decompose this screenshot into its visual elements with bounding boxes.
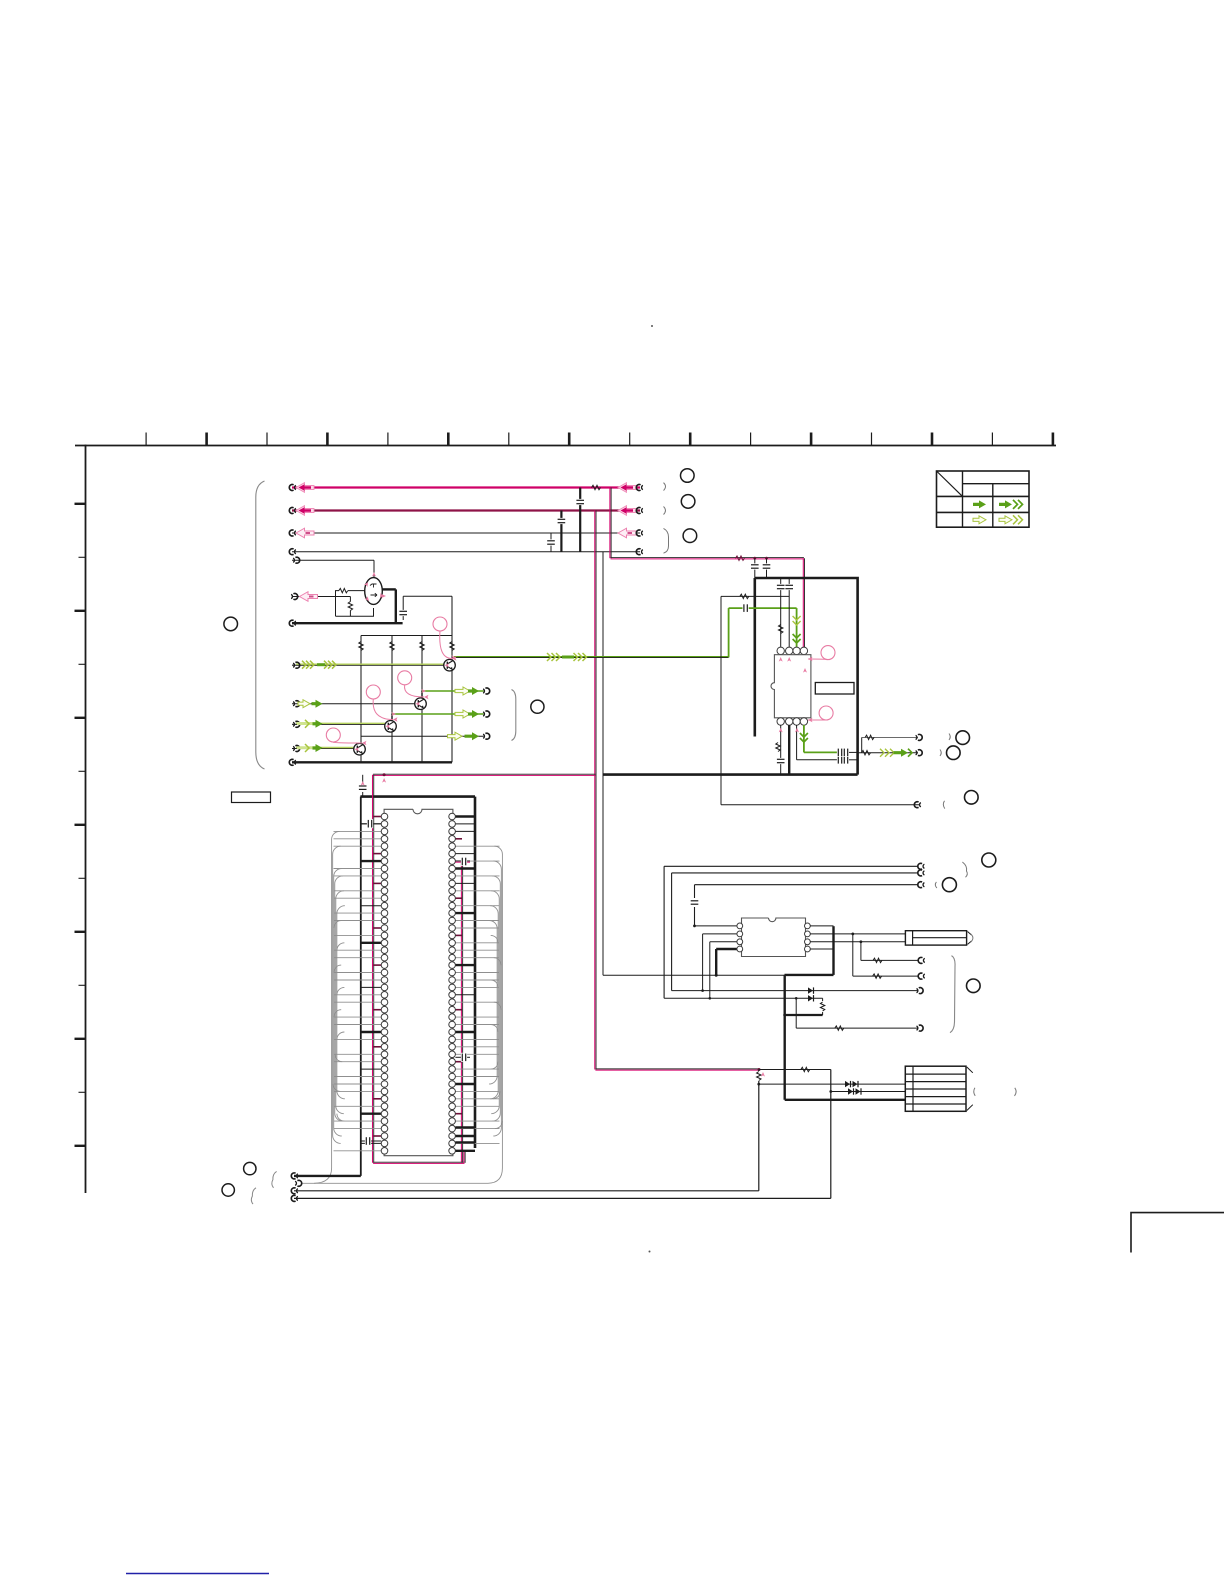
right bracket row1 xyxy=(664,483,666,491)
IC U2 bottom pins xyxy=(777,718,808,725)
resistor on row1 xyxy=(592,485,601,489)
bottom connector row1 thick xyxy=(294,1175,361,1177)
IC U3 pin1 wire xyxy=(695,925,738,927)
thick sense wire xyxy=(832,926,834,975)
resistor R in box xyxy=(349,597,351,602)
U2 label rect xyxy=(815,683,854,695)
ref circle right B xyxy=(681,495,695,509)
transistor Q5 oval xyxy=(365,578,383,605)
IC U2 body xyxy=(771,655,811,718)
motor feed row a xyxy=(759,1083,906,1085)
blue footer line xyxy=(126,1573,269,1575)
motor branch vertical b xyxy=(830,1070,832,1199)
U3 pin5 wire xyxy=(810,948,834,950)
IC U1 right pins xyxy=(449,813,456,1154)
IC U3 body xyxy=(742,918,806,957)
motor branch vertical a xyxy=(758,1070,760,1072)
motor bracket right xyxy=(1015,1088,1017,1096)
thick link xyxy=(785,1014,823,1016)
connector plug CN xyxy=(905,931,966,945)
diode row 1 xyxy=(672,990,919,992)
row4 right connector xyxy=(636,549,640,555)
U2 pin1 lower wire xyxy=(780,725,782,775)
capacitor stub C1 xyxy=(550,533,552,552)
motor M1 xyxy=(905,1066,966,1111)
IC U1 outer box top xyxy=(360,795,475,798)
row3 left connector xyxy=(289,530,293,536)
IC U1 body xyxy=(384,809,453,1155)
diode row 2 xyxy=(664,997,823,999)
IC U1 outer box left xyxy=(360,797,362,1176)
top ruler line xyxy=(75,445,1056,447)
maroon bus left xyxy=(371,775,373,1163)
green output row B xyxy=(421,691,423,698)
capacitor pair row2 xyxy=(837,759,849,761)
left ruler ticks xyxy=(75,504,86,1146)
outer loop wire xyxy=(720,596,722,804)
balloon label Q3 xyxy=(366,685,380,699)
balloon label Q4 xyxy=(326,728,340,742)
row1 left arrow xyxy=(296,483,314,493)
motor feed row b xyxy=(831,1091,906,1093)
main drive trunk thick xyxy=(784,975,786,1100)
capacitor stub U1 right lower xyxy=(455,1056,470,1058)
IC U3 pin2 wire xyxy=(703,933,738,935)
branch wire c xyxy=(795,998,797,1028)
legend arrow outline small xyxy=(973,516,986,524)
U1 right harness loops xyxy=(301,846,502,1183)
green input row D xyxy=(292,748,355,750)
wire row1 magenta xyxy=(292,486,640,488)
row1 right arrow xyxy=(618,483,636,493)
ref circle branch xyxy=(967,979,981,993)
row3 right connector xyxy=(636,530,640,536)
green output beyond box xyxy=(858,752,918,754)
capacitor stub C4 xyxy=(402,596,404,620)
legend table frame xyxy=(937,471,1030,527)
transistor Q2 xyxy=(415,698,427,710)
U2 pin3 lower wire xyxy=(796,725,798,760)
IC U2 box bottom thick xyxy=(603,773,858,776)
green feed wire xyxy=(728,608,730,657)
bracket loop xyxy=(943,801,944,809)
green input row C xyxy=(292,723,386,725)
wire row5 xyxy=(292,559,374,561)
loop1 connector xyxy=(918,863,922,869)
pink tick marks xyxy=(372,572,376,577)
bottom connector row2 xyxy=(297,1180,301,1186)
row2 left arrow xyxy=(296,506,314,516)
label rect xyxy=(232,792,271,803)
diode row1 connector xyxy=(919,988,923,994)
legend arrow solid large xyxy=(999,500,1012,508)
maroon net from row1 xyxy=(609,488,611,559)
green output row A xyxy=(454,656,729,658)
maroon-black motor feed xyxy=(759,1069,831,1071)
row1 left connector xyxy=(289,484,293,490)
row6 wire xyxy=(292,596,350,598)
U1 left harness loops xyxy=(314,831,345,1183)
row3 right arrow outline xyxy=(618,528,636,538)
row6 arrow outline pink xyxy=(300,592,318,602)
black cap stub to IC box xyxy=(362,775,364,783)
output row D xyxy=(361,735,484,737)
bracket branches xyxy=(950,956,955,1033)
loop3 wire xyxy=(695,884,919,886)
balloon label Q1 xyxy=(433,617,447,631)
legend diagonal xyxy=(937,472,963,497)
ref circle loops-a xyxy=(982,853,996,867)
transistor Q4 xyxy=(354,743,366,755)
thick wire from Q5 xyxy=(382,588,396,590)
ref circle loops-b xyxy=(942,878,956,892)
right bracket row2 xyxy=(664,507,666,515)
capacitor stub above U2 right xyxy=(766,558,768,578)
right small marks xyxy=(949,734,950,741)
IC U1 left pin stubs xyxy=(334,817,382,1151)
row5 left connector xyxy=(295,557,299,563)
monitor wire row xyxy=(861,737,863,752)
capacitor stub U1 right upper xyxy=(455,861,470,863)
right bracket rows3-4 xyxy=(664,528,669,553)
capacitor pair row1 xyxy=(837,748,843,757)
array bottom rail thick xyxy=(292,761,452,763)
maroon junction dots xyxy=(753,557,756,560)
branch wire b xyxy=(860,940,863,943)
row7 left connector xyxy=(289,620,293,626)
transistor Q3 xyxy=(385,721,397,733)
wire with resistor above U2 xyxy=(721,595,789,597)
mid bracket xyxy=(512,690,516,741)
capacitor at U1 bottom-left xyxy=(361,1140,381,1142)
input row B xyxy=(292,703,416,705)
U2 pin4 green output xyxy=(803,725,805,752)
bottom connector row3 xyxy=(294,1190,759,1192)
corner mark xyxy=(1131,1213,1224,1253)
loop2 connector xyxy=(918,870,922,876)
bottom brackets xyxy=(272,1171,277,1187)
array vertical 1 xyxy=(360,636,362,763)
green input row A xyxy=(292,664,444,666)
U3 pin6 wire to plug xyxy=(810,941,905,943)
branch wire a xyxy=(851,933,854,936)
branch b connector xyxy=(918,957,922,963)
balloon label U2 top xyxy=(821,646,835,660)
U2 pin2 lower wire thick xyxy=(788,725,790,775)
row6 left connector xyxy=(293,594,297,600)
ref circle mid xyxy=(531,700,544,713)
top ruler ticks xyxy=(146,433,1053,446)
ref circle right A xyxy=(681,469,695,483)
branch c connector xyxy=(919,1025,923,1031)
outer loop connector xyxy=(914,802,918,808)
capacitor stub C3 xyxy=(579,488,581,552)
array top rail xyxy=(361,635,452,637)
IC U3 pin3 wire xyxy=(710,941,738,943)
row2 left connector xyxy=(289,508,293,514)
IC U3 pin4 wire thick xyxy=(716,948,737,950)
U1 bottom thick stub right xyxy=(455,1126,475,1128)
ref circle loop xyxy=(965,791,979,805)
wire row4 xyxy=(292,551,640,553)
resistor on maroon net xyxy=(736,556,745,560)
bracket loops-a xyxy=(962,862,967,877)
array vertical 2 xyxy=(391,636,393,763)
thin wire from Q5 to array xyxy=(403,595,452,597)
U2 pin2 feed xyxy=(788,578,790,648)
bracket loops-b xyxy=(935,882,937,888)
array vertical 3 xyxy=(421,636,423,763)
balloon label U2 bottom xyxy=(819,706,833,720)
IC U1 left pins xyxy=(381,813,388,1154)
loop2 wire xyxy=(672,872,919,874)
ref circle U2-b xyxy=(947,746,961,760)
IC U2 top pins xyxy=(777,647,808,654)
maroon feed wire xyxy=(373,774,595,776)
IC U3 right pins xyxy=(805,923,811,952)
bottom circles xyxy=(244,1162,256,1174)
array vertical 4 xyxy=(451,596,453,762)
ref circle right C xyxy=(683,529,697,543)
IC U1 outer box right xyxy=(474,797,477,1148)
resistor network box xyxy=(336,591,374,617)
left ruler line xyxy=(85,445,87,1193)
IC U3 left pins xyxy=(737,923,743,952)
ref circle left xyxy=(224,617,238,631)
row2 right connector xyxy=(636,508,640,514)
green feed chevrons xyxy=(793,616,801,620)
loop3 connector xyxy=(918,882,922,888)
transistor Q1 xyxy=(444,659,456,671)
capacitor stub C2 xyxy=(560,511,562,552)
stray dot b xyxy=(649,1251,651,1253)
loop1 wire xyxy=(664,865,918,867)
branch a connector xyxy=(918,973,922,979)
U3 pin7 wire to plug xyxy=(810,933,905,935)
capacitor stub above U2 left xyxy=(754,558,756,578)
left tall bracket xyxy=(256,481,265,769)
balloon label Q2 xyxy=(398,671,412,685)
row2 right arrow xyxy=(618,506,636,516)
maroon net from row2 xyxy=(594,511,596,1070)
bottom rail connector xyxy=(289,759,293,765)
U2 pin1 feed xyxy=(780,578,782,648)
resistor drop xyxy=(822,998,824,1001)
green output row C xyxy=(391,714,393,721)
maroon bus right xyxy=(460,862,462,1163)
IC U1 right pin stubs xyxy=(455,817,499,1151)
stray dot a xyxy=(651,325,653,327)
row4 left connector xyxy=(289,549,293,555)
IC U2 box xyxy=(755,578,858,775)
legend arrow solid small xyxy=(973,500,986,508)
motor bracket left xyxy=(974,1088,975,1096)
wire row2 magenta xyxy=(292,509,640,511)
row3 left arrow outline xyxy=(296,528,314,538)
ref circle U2-a xyxy=(956,731,970,745)
wire row3 xyxy=(292,532,640,534)
capacitor at U1 top-left xyxy=(361,823,381,825)
maroon bottom link xyxy=(373,1162,464,1164)
legend arrow outline large xyxy=(999,516,1012,524)
U3 pin8 wire xyxy=(810,925,834,927)
bottom connector row4 xyxy=(294,1197,831,1199)
legend table lines xyxy=(962,471,964,527)
wire row7 thick xyxy=(292,622,403,624)
black net from row4 xyxy=(602,552,604,976)
row1 right connector xyxy=(636,485,640,491)
